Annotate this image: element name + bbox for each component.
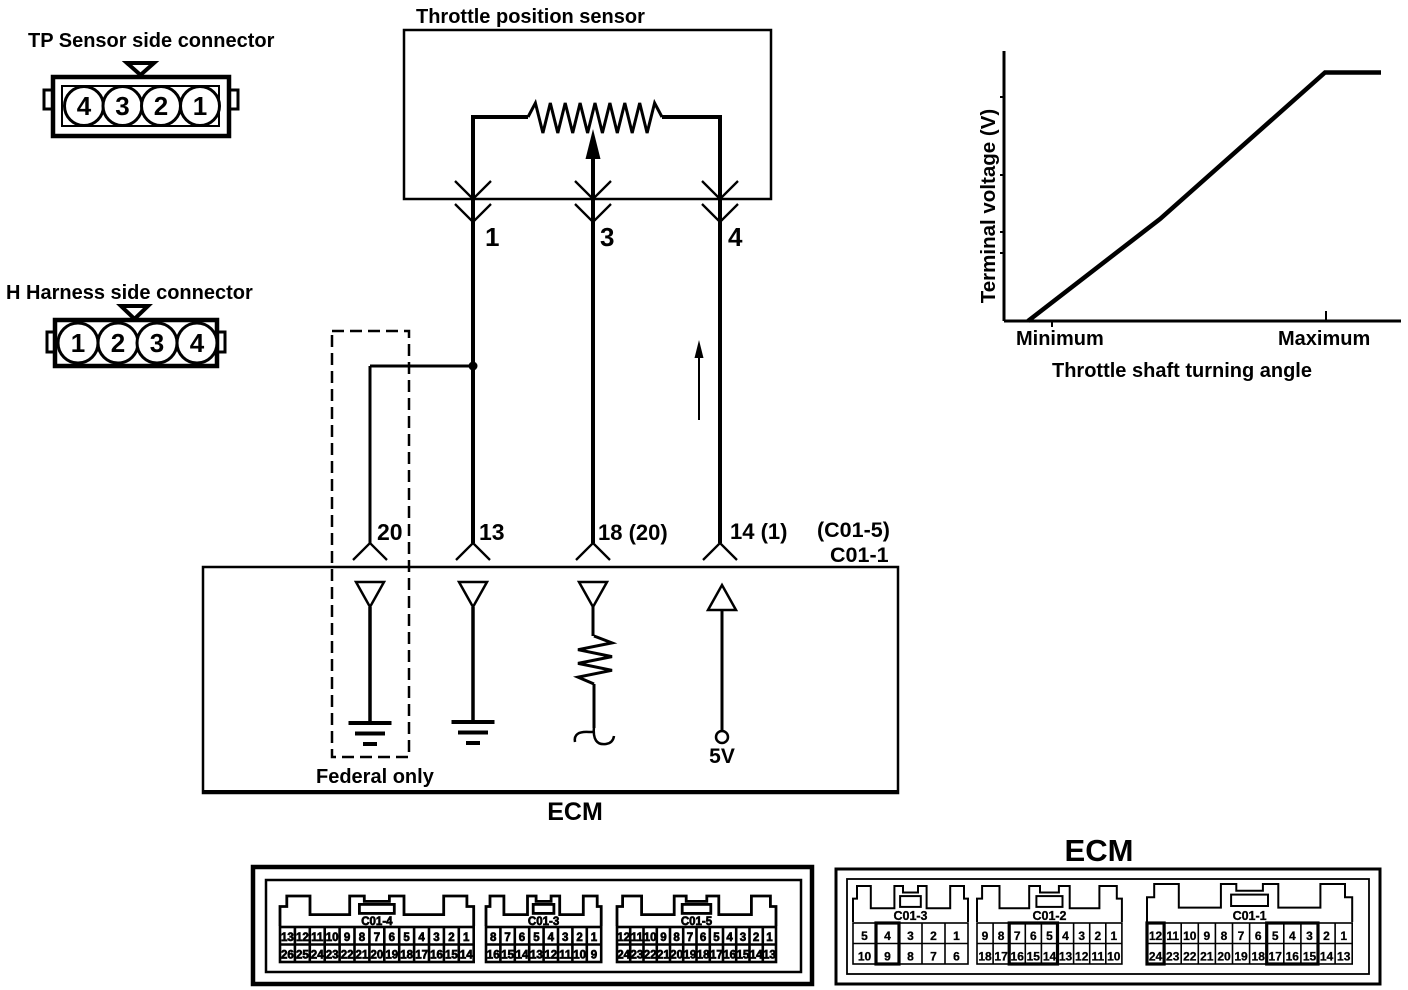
svg-text:3: 3: [600, 222, 614, 252]
svg-text:1: 1: [591, 932, 598, 944]
svg-text:10: 10: [644, 932, 657, 944]
svg-text:3: 3: [433, 932, 439, 944]
svg-text:13: 13: [1059, 950, 1073, 964]
ECM pin18 internal: triangle, pull resistor, hook: [575, 582, 614, 744]
svg-text:19: 19: [1234, 950, 1248, 964]
graph: voltage curve: [1028, 73, 1381, 322]
svg-text:14: 14: [460, 950, 473, 962]
wiper arrow of potentiometer: [586, 129, 601, 199]
svg-text:7: 7: [504, 932, 510, 944]
svg-text:16: 16: [430, 950, 443, 962]
resistor: TPS potentiometer track: [528, 103, 662, 133]
svg-text:1: 1: [766, 932, 773, 944]
svg-text:3: 3: [1306, 929, 1313, 943]
connector group C01-2: highlighted pins: [1009, 923, 1057, 964]
svg-text:14: 14: [750, 950, 763, 962]
svg-text:9: 9: [591, 950, 597, 962]
svg-text:3: 3: [740, 932, 746, 944]
connector group C01-3: housing profile: [486, 896, 601, 926]
TP connector body: [44, 77, 238, 136]
svg-text:19: 19: [684, 950, 697, 962]
svg-text:5V: 5V: [709, 745, 735, 768]
svg-text:1: 1: [953, 929, 960, 943]
ECM bottom edge (thick): [203, 790, 898, 794]
svg-text:12: 12: [617, 932, 630, 944]
H connector pin 3: [137, 323, 177, 363]
TP connector pin 4: [65, 87, 104, 126]
svg-text:5: 5: [713, 932, 720, 944]
svg-text:11: 11: [311, 932, 324, 944]
ECM pin20 internal: triangle to ground (Federal only): [349, 582, 392, 744]
TP connector index triangle: [127, 63, 154, 75]
svg-text:1: 1: [463, 932, 470, 944]
svg-text:10: 10: [858, 950, 872, 964]
svg-text:16: 16: [1286, 950, 1300, 964]
svg-text:4: 4: [418, 932, 425, 944]
connector chevrons at sensor pin 4: [702, 181, 738, 222]
svg-text:2: 2: [930, 929, 937, 943]
TP connector pin 2: [142, 87, 181, 126]
svg-text:Throttle shaft turning angle: Throttle shaft turning angle: [1052, 360, 1312, 382]
svg-text:5: 5: [403, 932, 410, 944]
svg-text:18: 18: [697, 950, 710, 962]
TP connector pin 3: [103, 87, 142, 126]
connector group C01-3: pin grid: [853, 923, 968, 964]
svg-text:19: 19: [385, 950, 398, 962]
svg-text:20: 20: [371, 950, 384, 962]
svg-text:4: 4: [884, 929, 891, 943]
svg-text:22: 22: [1183, 950, 1197, 964]
junction dot on pin1 wire: [469, 362, 478, 371]
svg-text:4: 4: [190, 328, 205, 358]
svg-text:16: 16: [723, 950, 736, 962]
svg-text:26: 26: [281, 950, 294, 962]
svg-text:3: 3: [1078, 929, 1085, 943]
svg-text:7: 7: [687, 932, 693, 944]
svg-text:6: 6: [389, 932, 395, 944]
TP connector pin 1: [181, 87, 220, 126]
svg-text:1: 1: [71, 328, 85, 358]
svg-text:8: 8: [673, 932, 680, 944]
svg-text:5: 5: [861, 929, 868, 943]
connector chevrons at sensor pin 3: [575, 181, 611, 222]
svg-text:18: 18: [400, 950, 413, 962]
svg-text:8: 8: [1221, 929, 1228, 943]
connector group C01-1: pin grid: [1147, 923, 1352, 964]
svg-text:18: 18: [978, 950, 992, 964]
svg-text:10: 10: [1183, 929, 1197, 943]
svg-text:11: 11: [1091, 950, 1104, 964]
svg-text:4: 4: [548, 932, 555, 944]
svg-text:3: 3: [150, 328, 164, 358]
svg-text:21: 21: [356, 950, 369, 962]
svg-text:12: 12: [296, 932, 309, 944]
svg-text:8: 8: [998, 929, 1005, 943]
svg-text:17: 17: [710, 950, 723, 962]
svg-text:6: 6: [1255, 929, 1262, 943]
graph: axes: [1000, 51, 1401, 327]
svg-text:14: 14: [1043, 950, 1057, 964]
svg-text:17: 17: [994, 950, 1008, 964]
wire: pin1 branch inside sensor: [473, 117, 528, 199]
svg-text:8: 8: [907, 950, 914, 964]
ECM pin13 internal: triangle to ground: [452, 582, 495, 743]
signal arrow beside pin14 wire: [695, 340, 704, 420]
svg-text:24: 24: [311, 950, 324, 962]
svg-text:Throttle position sensor: Throttle position sensor: [416, 6, 645, 28]
svg-text:6: 6: [700, 932, 706, 944]
wire: branch to ECM pin20 (vertical): [369, 366, 372, 543]
svg-text:6: 6: [519, 932, 525, 944]
svg-text:24: 24: [617, 950, 630, 962]
svg-text:C01-1: C01-1: [830, 543, 889, 567]
svg-text:5: 5: [533, 932, 540, 944]
svg-text:22: 22: [644, 950, 657, 962]
svg-text:10: 10: [326, 932, 339, 944]
connector group C01-5: pin grid: [617, 927, 776, 962]
svg-text:C01-3: C01-3: [893, 909, 927, 923]
throttle position sensor box: [404, 30, 771, 199]
svg-text:13: 13: [479, 519, 505, 545]
svg-text:H Harness side connector: H Harness side connector: [6, 282, 253, 304]
connector group C01-3: housing profile: [853, 886, 968, 922]
connector group C01-2: housing profile: [977, 886, 1122, 922]
svg-text:10: 10: [573, 950, 586, 962]
svg-text:15: 15: [1303, 950, 1317, 964]
svg-text:1: 1: [1340, 929, 1347, 943]
svg-text:20: 20: [670, 950, 683, 962]
connector group C01-2: pin grid: [977, 923, 1122, 964]
svg-text:14 (1): 14 (1): [730, 519, 787, 544]
svg-text:9: 9: [660, 932, 666, 944]
svg-text:12: 12: [544, 950, 557, 962]
svg-text:2: 2: [1094, 929, 1101, 943]
svg-text:(C01-5): (C01-5): [817, 518, 890, 542]
dashed box: Federal only region: [332, 331, 409, 757]
svg-text:8: 8: [359, 932, 366, 944]
svg-text:1: 1: [1110, 929, 1117, 943]
wire-end chevron at ECM pin 20: [353, 543, 387, 560]
connector group C01-1: highlighted pins: [1267, 923, 1318, 964]
wire: branch to ECM pin20 (horizontal): [370, 365, 473, 368]
svg-text:21: 21: [1200, 950, 1214, 964]
svg-text:15: 15: [501, 950, 514, 962]
svg-text:8: 8: [490, 932, 497, 944]
svg-text:9: 9: [982, 929, 989, 943]
svg-text:9: 9: [344, 932, 350, 944]
svg-text:Federal only: Federal only: [316, 766, 435, 788]
svg-text:2: 2: [154, 91, 168, 121]
svg-text:15: 15: [1027, 950, 1041, 964]
svg-text:ECM: ECM: [1065, 833, 1134, 868]
svg-text:4: 4: [1289, 929, 1296, 943]
svg-text:7: 7: [1014, 929, 1021, 943]
svg-text:5: 5: [1046, 929, 1053, 943]
svg-text:7: 7: [930, 950, 937, 964]
svg-text:23: 23: [326, 950, 339, 962]
svg-text:2: 2: [448, 932, 454, 944]
svg-text:7: 7: [374, 932, 380, 944]
ECM box: [203, 567, 898, 793]
svg-text:1: 1: [193, 91, 207, 121]
svg-text:Terminal voltage (V): Terminal voltage (V): [977, 109, 1000, 303]
H connector pin 2: [98, 323, 138, 363]
connector group C01-1: highlighted pins: [1147, 923, 1164, 964]
svg-text:18: 18: [1252, 950, 1266, 964]
svg-text:2: 2: [1323, 929, 1330, 943]
harness connector block outer frame: [253, 867, 812, 984]
svg-text:13: 13: [763, 950, 776, 962]
wire: sensor pin1 to ECM pin13: [471, 199, 475, 543]
connector chevrons at sensor pin 1: [455, 181, 491, 222]
connector group C01-3: highlighted pins: [876, 923, 899, 964]
svg-text:7: 7: [1238, 929, 1245, 943]
svg-text:3: 3: [115, 91, 129, 121]
ECM connector block inner frame: [847, 879, 1369, 974]
wire: sensor pin3 to ECM pin18: [591, 199, 595, 543]
svg-text:11: 11: [1166, 929, 1179, 943]
svg-text:1: 1: [485, 222, 499, 252]
svg-text:14: 14: [516, 950, 529, 962]
svg-text:4: 4: [77, 91, 92, 121]
svg-text:C01-1: C01-1: [1233, 909, 1267, 923]
wire: pin4 branch inside sensor: [662, 117, 720, 199]
svg-text:13: 13: [530, 950, 543, 962]
svg-text:Minimum: Minimum: [1016, 328, 1104, 350]
svg-text:17: 17: [1269, 950, 1283, 964]
svg-text:12: 12: [1075, 950, 1089, 964]
connector group C01-1: housing profile: [1147, 884, 1352, 922]
svg-text:4: 4: [728, 222, 743, 252]
svg-text:11: 11: [631, 932, 644, 944]
svg-text:20: 20: [377, 519, 403, 545]
svg-text:17: 17: [415, 950, 428, 962]
svg-text:13: 13: [281, 932, 294, 944]
svg-text:TP Sensor side connector: TP Sensor side connector: [28, 30, 275, 52]
wire-end chevron at ECM pin 13: [456, 543, 490, 560]
svg-text:14: 14: [1320, 950, 1334, 964]
svg-text:24: 24: [1149, 950, 1163, 964]
connector group C01-5: housing profile: [617, 896, 776, 926]
svg-text:20: 20: [1217, 950, 1231, 964]
connector group C01-4: housing profile: [280, 896, 474, 926]
svg-text:Maximum: Maximum: [1278, 328, 1370, 350]
svg-text:C01-2: C01-2: [1032, 909, 1066, 923]
svg-text:6: 6: [1030, 929, 1037, 943]
svg-text:21: 21: [657, 950, 670, 962]
svg-text:9: 9: [884, 950, 891, 964]
H connector pin 4: [177, 323, 217, 363]
svg-text:10: 10: [1107, 950, 1121, 964]
svg-text:3: 3: [562, 932, 568, 944]
svg-text:5: 5: [1272, 929, 1279, 943]
harness connector block inner frame: [266, 880, 801, 972]
ECM pin14 internal: 5V supply: [708, 585, 736, 768]
connector group C01-4: pin grid: [280, 927, 474, 962]
svg-text:15: 15: [737, 950, 750, 962]
svg-text:16: 16: [487, 950, 500, 962]
svg-text:22: 22: [341, 950, 354, 962]
svg-text:11: 11: [559, 950, 572, 962]
svg-text:16: 16: [1011, 950, 1025, 964]
svg-text:23: 23: [1166, 950, 1180, 964]
svg-text:18 (20): 18 (20): [598, 520, 668, 545]
connector group C01-3: pin grid: [486, 927, 601, 962]
svg-text:6: 6: [953, 950, 960, 964]
wire: sensor pin4 to ECM pin14: [718, 199, 722, 543]
H connector pin 1: [58, 323, 98, 363]
svg-text:12: 12: [1149, 929, 1163, 943]
wire-end chevron at ECM pin 14: [703, 543, 737, 560]
svg-text:9: 9: [1203, 929, 1210, 943]
svg-text:13: 13: [1337, 950, 1351, 964]
H connector body: [47, 320, 225, 366]
svg-text:2: 2: [576, 932, 582, 944]
svg-text:3: 3: [907, 929, 914, 943]
svg-text:25: 25: [296, 950, 309, 962]
svg-text:15: 15: [445, 950, 458, 962]
svg-text:4: 4: [1062, 929, 1069, 943]
svg-text:ECM: ECM: [547, 798, 603, 826]
H connector index triangle: [121, 306, 148, 319]
svg-text:4: 4: [726, 932, 733, 944]
ECM connector block outer frame: [836, 869, 1380, 984]
svg-text:2: 2: [111, 328, 125, 358]
wire-end chevron at ECM pin 18: [576, 543, 610, 560]
svg-text:2: 2: [753, 932, 759, 944]
svg-text:23: 23: [631, 950, 644, 962]
